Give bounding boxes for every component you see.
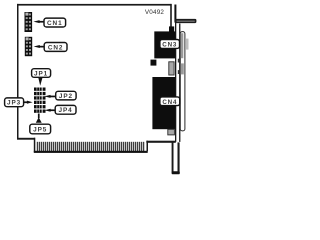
bracket bottom tab cap bbox=[172, 171, 180, 174]
label JP5 up pointer bbox=[36, 114, 42, 123]
label JP3 box bbox=[5, 98, 24, 107]
label JP2 callout arrow bbox=[44, 95, 56, 98]
label CN3 box bbox=[160, 40, 180, 49]
label CN4 box bbox=[160, 97, 180, 106]
card outline left edge bbox=[17, 4, 19, 139]
label JP4 callout arrow bbox=[44, 109, 55, 112]
connector CN3 body bbox=[154, 31, 175, 58]
card outline bottom-right edge bbox=[146, 141, 176, 143]
svg-text:JP4: JP4 bbox=[59, 107, 73, 114]
card outline right edge bbox=[170, 4, 172, 32]
bracket strip left line bbox=[175, 21, 176, 142]
connector CN1 pin header bbox=[25, 12, 33, 32]
label CN2 box bbox=[44, 43, 67, 52]
card outline top edge bbox=[17, 4, 172, 6]
svg-text:JP2: JP2 bbox=[59, 93, 73, 100]
bracket top hook bbox=[174, 5, 196, 24]
edge connector band background bbox=[35, 142, 145, 152]
svg-text:JP5: JP5 bbox=[33, 127, 47, 134]
card outline bottom-left edge bbox=[17, 138, 35, 140]
label JP5 box bbox=[30, 124, 51, 134]
label JP1 box bbox=[32, 69, 51, 78]
label CN2 callout arrow bbox=[34, 45, 45, 48]
bracket plate cutout at CN3 bbox=[181, 33, 184, 58]
bracket bottom tab left line bbox=[172, 142, 174, 172]
component small block below CN3 bbox=[151, 60, 157, 66]
svg-text:JP1: JP1 bbox=[34, 70, 48, 77]
svg-text:V0492: V0492 bbox=[145, 9, 165, 16]
bracket bottom tab right line bbox=[178, 142, 180, 172]
stub below CN4 bbox=[168, 129, 175, 135]
bracket strip right line bbox=[179, 24, 180, 142]
svg-text:CN4: CN4 bbox=[162, 99, 177, 106]
svg-text:CN3: CN3 bbox=[162, 42, 177, 49]
svg-text:JP3: JP3 bbox=[7, 100, 21, 107]
edge connector bottom bar bbox=[34, 151, 148, 153]
jumper block JP1-JP5 bbox=[34, 88, 46, 113]
svg-text:CN2: CN2 bbox=[48, 44, 63, 51]
connector CN2 pin header bbox=[25, 37, 32, 56]
bracket face plate bbox=[180, 32, 185, 131]
card outline bottom-right step bbox=[147, 141, 149, 152]
edge connector teeth bbox=[38, 142, 144, 151]
label JP2 box bbox=[56, 91, 76, 100]
label CN1 callout arrow bbox=[33, 20, 44, 23]
jack connector between CN3 and CN4 bbox=[169, 62, 174, 75]
svg-text:CN1: CN1 bbox=[47, 20, 62, 27]
bracket plate cutout jack bbox=[181, 63, 184, 74]
label JP4 box bbox=[55, 105, 76, 114]
DIN barrel shadow right of bracket bbox=[185, 39, 188, 50]
label CN1 box bbox=[44, 18, 66, 27]
bracket jack nubs bbox=[178, 59, 180, 63]
label JP1 down pointer bbox=[38, 77, 42, 86]
label JP3 callout arrow bbox=[24, 101, 33, 104]
connector CN3 neck bump bbox=[169, 26, 174, 32]
connector CN4 body bbox=[152, 77, 175, 129]
card outline bottom-left notch drop bbox=[34, 138, 36, 153]
